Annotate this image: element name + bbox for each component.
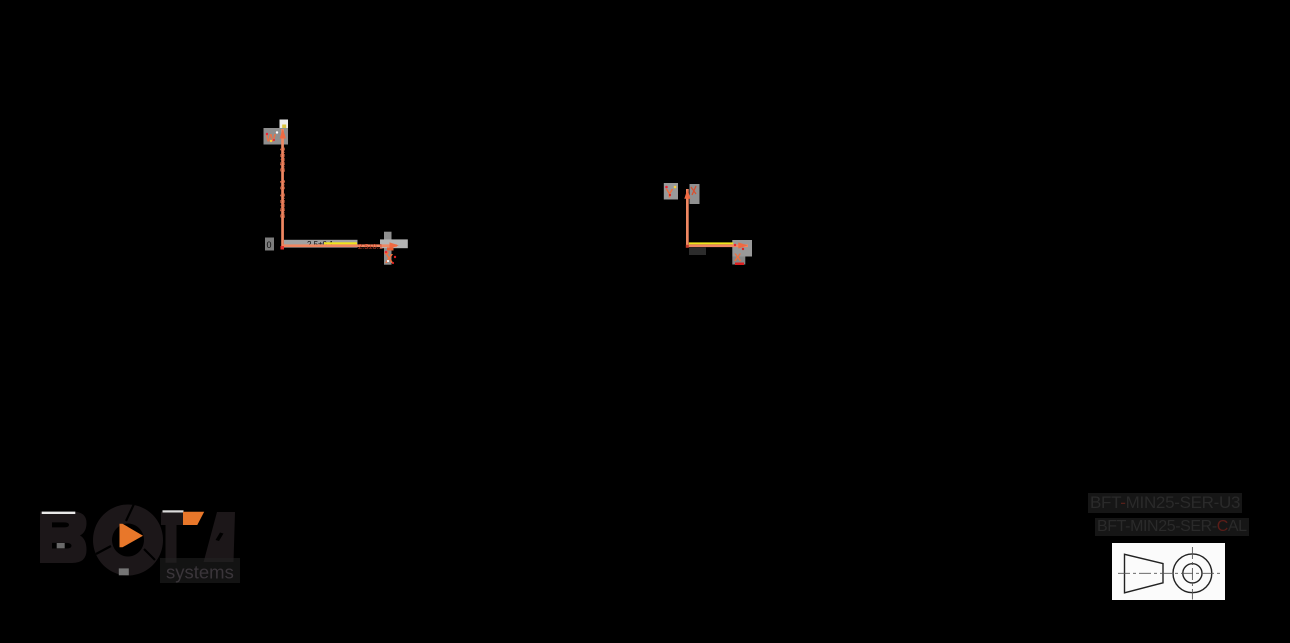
svg-text:0: 0 xyxy=(267,240,272,250)
svg-text:0.1: 0.1 xyxy=(278,180,287,190)
svg-text:2.5±0.1: 2.5±0.1 xyxy=(358,242,383,251)
svg-text:systems: systems xyxy=(166,562,234,583)
svg-text:X: X xyxy=(734,252,742,264)
svg-text:2.5±0.1: 2.5±0.1 xyxy=(278,193,287,218)
svg-text:2.5±0.1: 2.5±0.1 xyxy=(278,147,287,172)
svg-text:Y: Y xyxy=(666,187,674,201)
